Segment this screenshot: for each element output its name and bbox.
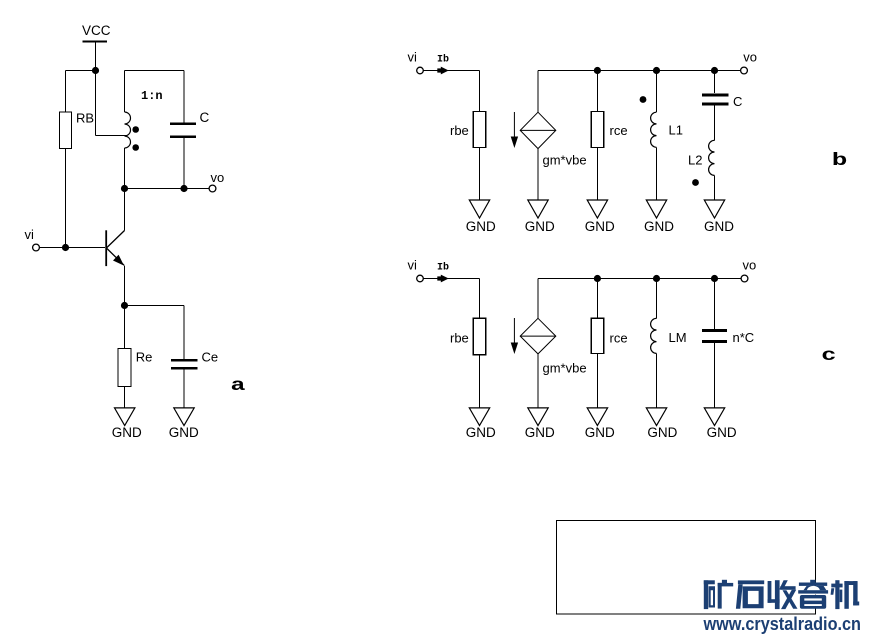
- svg-text:vo: vo: [743, 50, 757, 65]
- svg-text:GND: GND: [647, 425, 677, 440]
- svg-text:Ce: Ce: [202, 350, 219, 365]
- svg-text:L1: L1: [669, 123, 683, 138]
- svg-text:b: b: [832, 150, 848, 171]
- svg-text:1:n: 1:n: [141, 89, 163, 103]
- svg-text:Ib: Ib: [437, 262, 449, 274]
- svg-text:GND: GND: [466, 219, 496, 234]
- svg-text:VCC: VCC: [82, 23, 111, 38]
- svg-text:rce: rce: [610, 331, 628, 346]
- svg-text:vi: vi: [408, 258, 418, 273]
- svg-text:vo: vo: [743, 258, 757, 273]
- svg-text:GND: GND: [112, 425, 142, 440]
- svg-text:GND: GND: [525, 219, 555, 234]
- svg-text:c: c: [821, 345, 836, 366]
- svg-text:gm*vbe: gm*vbe: [543, 360, 587, 375]
- svg-text:a: a: [231, 375, 246, 396]
- svg-text:rce: rce: [610, 123, 628, 138]
- svg-text:GND: GND: [644, 219, 674, 234]
- svg-text:GND: GND: [169, 425, 199, 440]
- svg-text:RB: RB: [76, 111, 94, 126]
- svg-text:gm*vbe: gm*vbe: [543, 153, 587, 168]
- svg-text:C: C: [733, 94, 742, 109]
- svg-text:C: C: [200, 110, 210, 125]
- svg-text:vi: vi: [408, 50, 418, 65]
- svg-text:n*C: n*C: [733, 330, 755, 345]
- svg-text:Re: Re: [136, 350, 153, 365]
- svg-text:GND: GND: [585, 425, 615, 440]
- svg-text:rbe: rbe: [450, 331, 469, 346]
- svg-text:Ib: Ib: [437, 54, 449, 66]
- svg-text:www.crystalradio.cn: www.crystalradio.cn: [703, 613, 861, 634]
- svg-text:GND: GND: [704, 219, 734, 234]
- svg-text:GND: GND: [707, 425, 737, 440]
- svg-text:GND: GND: [585, 219, 615, 234]
- svg-text:rbe: rbe: [450, 123, 469, 138]
- svg-text:vi: vi: [25, 227, 35, 242]
- svg-text:GND: GND: [525, 425, 555, 440]
- svg-text:GND: GND: [466, 425, 496, 440]
- svg-text:LM: LM: [669, 330, 687, 345]
- svg-text:vo: vo: [211, 170, 225, 185]
- svg-text:L2: L2: [688, 153, 702, 168]
